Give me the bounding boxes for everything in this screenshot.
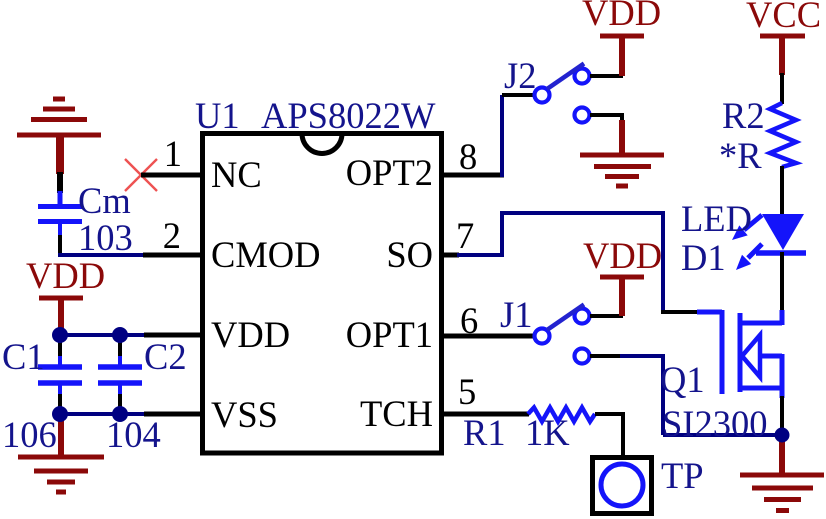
- power VDD (J1): [583, 235, 662, 316]
- svg-text:103: 103: [78, 217, 133, 258]
- IC notch: [302, 134, 342, 154]
- svg-text:OPT1: OPT1: [346, 314, 433, 355]
- svg-text:C2: C2: [144, 336, 187, 377]
- wire J1 upper to VDD: [590, 314, 623, 318]
- svg-text:VDD: VDD: [26, 255, 105, 296]
- capacitor C2: [98, 335, 142, 414]
- wire pin 5 to R1: [442, 412, 529, 417]
- wire J2 lower to ground: [590, 113, 623, 117]
- svg-text:5: 5: [458, 371, 476, 412]
- svg-text:SO: SO: [386, 234, 433, 275]
- wire pin 6 to J1: [442, 334, 533, 339]
- svg-text:VDD: VDD: [211, 314, 290, 355]
- svg-text:LED: LED: [681, 198, 752, 239]
- power VCC: [746, 0, 821, 75]
- svg-text:7: 7: [456, 215, 474, 256]
- transistor Q1: [697, 310, 782, 398]
- wire Q1 source to junction: [780, 396, 784, 435]
- ground (J2): [580, 120, 664, 186]
- svg-text:CMOD: CMOD: [211, 234, 321, 275]
- power VDD (left): [26, 255, 105, 336]
- LED D1 cathode bar: [756, 250, 806, 256]
- svg-text:APS8022W: APS8022W: [261, 95, 436, 136]
- wire pin 8 to J2: [442, 95, 533, 177]
- jumper J2: [535, 64, 590, 123]
- svg-text:SI2300: SI2300: [662, 403, 767, 444]
- svg-text:VDD: VDD: [583, 235, 662, 276]
- wire VCC to R2: [780, 73, 784, 104]
- svg-text:J1: J1: [500, 294, 532, 335]
- svg-text:C1: C1: [2, 336, 45, 377]
- svg-text:8: 8: [459, 136, 477, 177]
- capacitor C1: [38, 335, 82, 414]
- svg-text:106: 106: [2, 414, 57, 455]
- jumper J1: [535, 305, 590, 364]
- testpoint TP circle: [601, 464, 643, 506]
- wire ground to Cm: [57, 172, 63, 193]
- svg-text:104: 104: [106, 414, 161, 455]
- wire R2 to LED: [780, 166, 784, 216]
- wire J2 upper to VDD: [590, 74, 623, 78]
- wire LED to Q1 drain: [780, 252, 784, 312]
- svg-text:R2: R2: [722, 95, 765, 136]
- ground (inverted, top-left): [17, 99, 101, 174]
- IC U1 body: [203, 134, 442, 454]
- svg-text:NC: NC: [211, 154, 262, 195]
- junction node VSS-C1: [52, 406, 68, 422]
- svg-text:D1: D1: [681, 237, 726, 278]
- svg-text:VSS: VSS: [211, 394, 278, 435]
- wire VSS rail to pin 4: [60, 412, 144, 416]
- svg-text:R1: R1: [463, 412, 506, 453]
- svg-text:U1: U1: [195, 95, 240, 136]
- svg-text:Cm: Cm: [78, 180, 131, 221]
- wire R1 to TP: [595, 412, 625, 416]
- LED D1 arrow 1: [732, 215, 762, 240]
- svg-text:1K: 1K: [525, 412, 570, 453]
- junction node VSS-C2: [112, 406, 128, 422]
- wire pin 1 stub: [141, 173, 202, 178]
- testpoint TP box: [593, 458, 652, 514]
- wire pin 7 to Q1 gate (SO net): [442, 211, 699, 312]
- wire Cm to pin 2 (CMOD net): [58, 235, 62, 257]
- ground (bottom-left): [18, 412, 104, 492]
- svg-text:J2: J2: [504, 55, 536, 96]
- svg-text:TCH: TCH: [360, 393, 433, 434]
- LED D1 triangle: [762, 214, 804, 250]
- power VDD (J2): [582, 0, 661, 76]
- svg-text:*R: *R: [719, 135, 762, 176]
- junction node source/ground: [775, 428, 790, 443]
- svg-text:OPT2: OPT2: [346, 152, 433, 193]
- svg-text:2: 2: [163, 215, 181, 256]
- svg-text:VDD: VDD: [582, 0, 661, 33]
- svg-text:1: 1: [164, 133, 182, 174]
- ground (bottom-right): [740, 435, 824, 511]
- junction node VDD-C1: [52, 327, 68, 343]
- svg-text:Q1: Q1: [660, 359, 705, 400]
- svg-text:VCC: VCC: [746, 0, 821, 35]
- no-connect X on pin 1: [125, 159, 157, 191]
- resistor R2: [770, 103, 796, 167]
- resistor R1: [528, 408, 595, 422]
- LED D1 arrow 2: [736, 244, 762, 270]
- capacitor Cm: [38, 191, 82, 237]
- wire J1 lower to ground rail: [590, 354, 782, 435]
- wire VDD rail to pin 3: [60, 333, 144, 337]
- svg-text:TP: TP: [661, 455, 704, 496]
- junction node VDD-C2: [112, 327, 128, 343]
